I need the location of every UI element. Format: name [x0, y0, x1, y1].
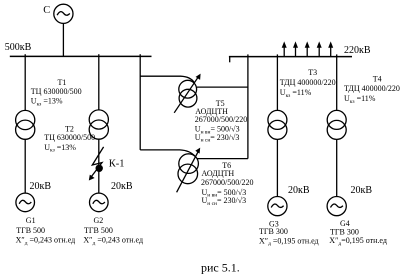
- svg-text:АОДЦТН: АОДЦТН: [202, 169, 235, 178]
- wire: 500kV bus to T2: [98, 54, 100, 110]
- wire: riser to 220kV bus: [247, 54, 249, 158]
- svg-text:20кВ: 20кВ: [111, 181, 133, 192]
- svg-text:ТГВ 300: ТГВ 300: [330, 228, 359, 237]
- bus 220kV left end tick: [229, 57, 231, 63]
- bus 220kV: [229, 56, 352, 58]
- wire: 500kV bus to T1: [24, 54, 26, 110]
- autotransformer T5: [179, 80, 197, 107]
- svg-text:ТДЦ 400000/220: ТДЦ 400000/220: [280, 78, 336, 87]
- svg-text:T3: T3: [308, 68, 317, 77]
- label T4 value block: [344, 74, 400, 105]
- svg-text:267000/500/220: 267000/500/220: [195, 115, 247, 124]
- svg-text:20кВ: 20кВ: [288, 185, 310, 196]
- svg-text:G1: G1: [26, 216, 36, 225]
- label G4 block: [329, 219, 387, 247]
- wire: branch to T6: [140, 150, 195, 157]
- svg-text:ТГВ 500: ТГВ 500: [84, 226, 113, 235]
- generator G3: [268, 197, 287, 216]
- svg-text:G2: G2: [94, 216, 104, 225]
- wire: 220kV bus to T4: [336, 54, 338, 110]
- autotransformer T6: [178, 154, 198, 184]
- svg-text:500кВ: 500кВ: [5, 42, 32, 53]
- svg-text:ТЦ 630000/500: ТЦ 630000/500: [44, 133, 95, 142]
- wire: 220kV bus to T3: [276, 54, 278, 110]
- wire: T6 to 220kV riser: [197, 158, 248, 160]
- transformer T3: [268, 110, 287, 139]
- bus 500kV: [10, 55, 152, 57]
- label T1 value block: [31, 78, 82, 107]
- wire: branch to T5: [140, 76, 194, 82]
- label G1 block: [16, 216, 76, 246]
- generator G4: [327, 197, 346, 216]
- label T3 value block: [280, 68, 336, 99]
- svg-text:20кВ: 20кВ: [351, 185, 373, 196]
- wire: T5 to 220kV riser: [197, 86, 248, 88]
- svg-text:20кВ: 20кВ: [30, 181, 52, 192]
- svg-text:220кВ: 220кВ: [344, 45, 371, 56]
- svg-text:рис 5.1.: рис 5.1.: [201, 260, 240, 274]
- transformer T1: [16, 110, 35, 139]
- wire: 500kV bus feeder to autotransformers: [139, 54, 141, 150]
- svg-text:T2: T2: [65, 125, 74, 134]
- svg-text:C: C: [43, 5, 50, 16]
- wire: T4 to G4: [336, 139, 338, 196]
- wire: source C to 500kV bus: [62, 23, 64, 56]
- short-circuit lightning arrow K-1: [91, 147, 104, 178]
- wire: T2 to G2: [98, 139, 100, 193]
- svg-text:T1: T1: [58, 78, 67, 87]
- label T6 value block: [201, 161, 253, 207]
- short-circuit point K-1 dot: [96, 165, 103, 172]
- svg-text:ТДЦ 400000/220: ТДЦ 400000/220: [344, 84, 400, 93]
- generator G2: [90, 193, 109, 212]
- svg-text:T4: T4: [373, 74, 382, 83]
- svg-text:ТЦ 630000/500: ТЦ 630000/500: [31, 87, 82, 96]
- svg-text:К-1: К-1: [109, 159, 125, 170]
- T5 regulation arrow: [174, 76, 199, 113]
- T6 regulation arrow: [177, 150, 199, 192]
- transformer T4: [327, 110, 346, 139]
- outgoing line arrows on 220kV bus: [282, 41, 334, 56]
- wire: T3 to G3: [276, 139, 278, 196]
- system source C: [54, 4, 73, 23]
- svg-text:267000/500/220: 267000/500/220: [201, 178, 253, 187]
- svg-text:ТГВ 500: ТГВ 500: [16, 226, 45, 235]
- label G3 block: [259, 220, 319, 248]
- label T2 value block: [44, 125, 95, 154]
- label T5 value block: [195, 99, 247, 144]
- label G2 block: [83, 216, 143, 246]
- svg-text:ТГВ 300: ТГВ 300: [259, 227, 288, 236]
- transformer T2: [89, 110, 108, 139]
- svg-text:G4: G4: [340, 219, 350, 228]
- generator G1: [16, 193, 35, 212]
- wire: T1 to G1: [24, 139, 26, 193]
